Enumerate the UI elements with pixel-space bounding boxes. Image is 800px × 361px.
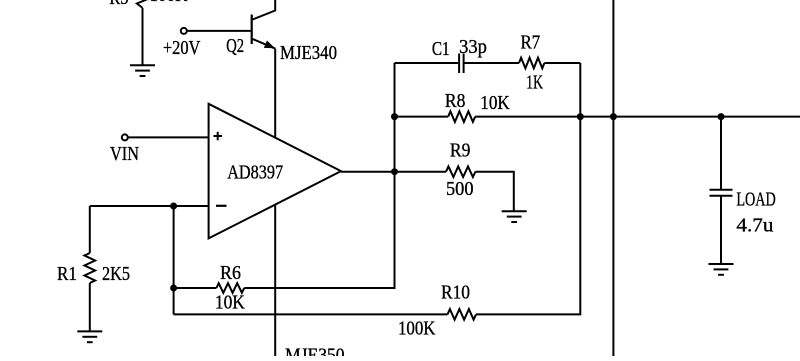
wire C1 to R7 xyxy=(465,62,520,64)
wire LOAD to ground xyxy=(720,196,722,264)
svg-text:33p: 33p xyxy=(459,36,487,58)
resistor R1 xyxy=(85,253,96,283)
svg-text:MJE340: MJE340 xyxy=(280,42,337,64)
svg-text:10K: 10K xyxy=(480,92,510,114)
svg-text:R8: R8 xyxy=(445,90,466,112)
ground under LOAD xyxy=(709,263,734,265)
wire op-amp output xyxy=(341,171,446,173)
svg-text:R1: R1 xyxy=(57,263,77,285)
resistor R5 (partially cut at top) xyxy=(137,0,148,8)
wire R6 to feedback node xyxy=(244,63,394,288)
node junction feedback/R8 xyxy=(391,113,398,120)
wire R8 rail left xyxy=(395,116,449,118)
svg-text:R10: R10 xyxy=(441,282,470,304)
resistor R7 xyxy=(519,58,544,69)
node junction feedback/output xyxy=(391,168,398,175)
terminal +20V xyxy=(181,28,187,34)
transistor Q2 emitter with arrow xyxy=(253,39,276,49)
wire to R10 xyxy=(174,313,448,315)
wire minus node down to R6/R10 xyxy=(173,206,175,314)
wire R7 to corner xyxy=(544,62,580,64)
wire down to R1 xyxy=(89,206,91,253)
wire R8 rail right xyxy=(475,116,800,118)
wire feedback node vertical xyxy=(394,63,396,288)
wire to R6 xyxy=(174,287,217,289)
svg-text:Q2: Q2 xyxy=(226,35,244,57)
terminal VIN xyxy=(122,134,128,140)
svg-text:100K: 100K xyxy=(150,0,188,6)
op-amp minus input symbol xyxy=(216,205,227,207)
svg-text:AD8397: AD8397 xyxy=(227,162,283,184)
ground under R5 xyxy=(130,64,155,66)
svg-text:LOAD: LOAD xyxy=(736,189,775,211)
wire +20V to Q2 base xyxy=(187,30,251,32)
svg-text:100K: 100K xyxy=(398,318,436,340)
resistor R9 xyxy=(446,166,475,177)
wire to C1 xyxy=(395,62,459,64)
capacitor LOAD 4.7u xyxy=(710,189,733,191)
svg-text:4.7u: 4.7u xyxy=(736,215,773,237)
svg-text:10K: 10K xyxy=(215,292,245,314)
transistor Q2 base bar xyxy=(251,15,253,45)
wire R10 up to R8 node xyxy=(476,63,580,314)
svg-text:1K: 1K xyxy=(526,71,543,93)
wire R1 to ground xyxy=(89,283,91,331)
svg-text:R6: R6 xyxy=(220,262,241,284)
ground under R1 xyxy=(77,330,102,332)
resistor R6 xyxy=(216,283,244,293)
svg-text:MJE350: MJE350 xyxy=(285,344,345,356)
op-amp plus input symbol xyxy=(214,135,223,137)
svg-text:VIN: VIN xyxy=(110,143,139,165)
svg-text:2K5: 2K5 xyxy=(102,263,130,285)
op-amp U1 AD8397 triangle xyxy=(209,104,341,239)
svg-text:C1: C1 xyxy=(432,38,450,60)
node junction at minus input xyxy=(170,203,177,210)
node junction at R6 tap xyxy=(170,285,177,292)
wire output rail vertical xyxy=(612,0,614,358)
capacitor C1 xyxy=(458,54,460,74)
node junction R7-R10 rail at R8 line xyxy=(577,113,584,120)
resistor R8 xyxy=(448,111,475,122)
transistor Q2 collector xyxy=(253,0,276,20)
wire to LOAD capacitor xyxy=(720,117,722,189)
svg-text:R7: R7 xyxy=(521,32,541,54)
wire VIN to op-amp plus input xyxy=(128,136,209,138)
wire op-amp minus input xyxy=(90,205,209,207)
svg-text:+20V: +20V xyxy=(163,37,201,59)
svg-text:R5: R5 xyxy=(109,0,128,9)
ground under R9 xyxy=(502,210,527,212)
svg-text:R9: R9 xyxy=(450,140,471,162)
svg-text:500: 500 xyxy=(446,178,474,200)
wire R9 to ground xyxy=(475,172,513,211)
node junction output rail xyxy=(610,113,617,120)
node junction LOAD tap xyxy=(718,113,725,120)
resistor R10 xyxy=(448,309,477,320)
wire Q2 emitter down to Q3 (passes behind op-amp) xyxy=(274,49,276,358)
wire R5 to ground xyxy=(142,8,144,65)
